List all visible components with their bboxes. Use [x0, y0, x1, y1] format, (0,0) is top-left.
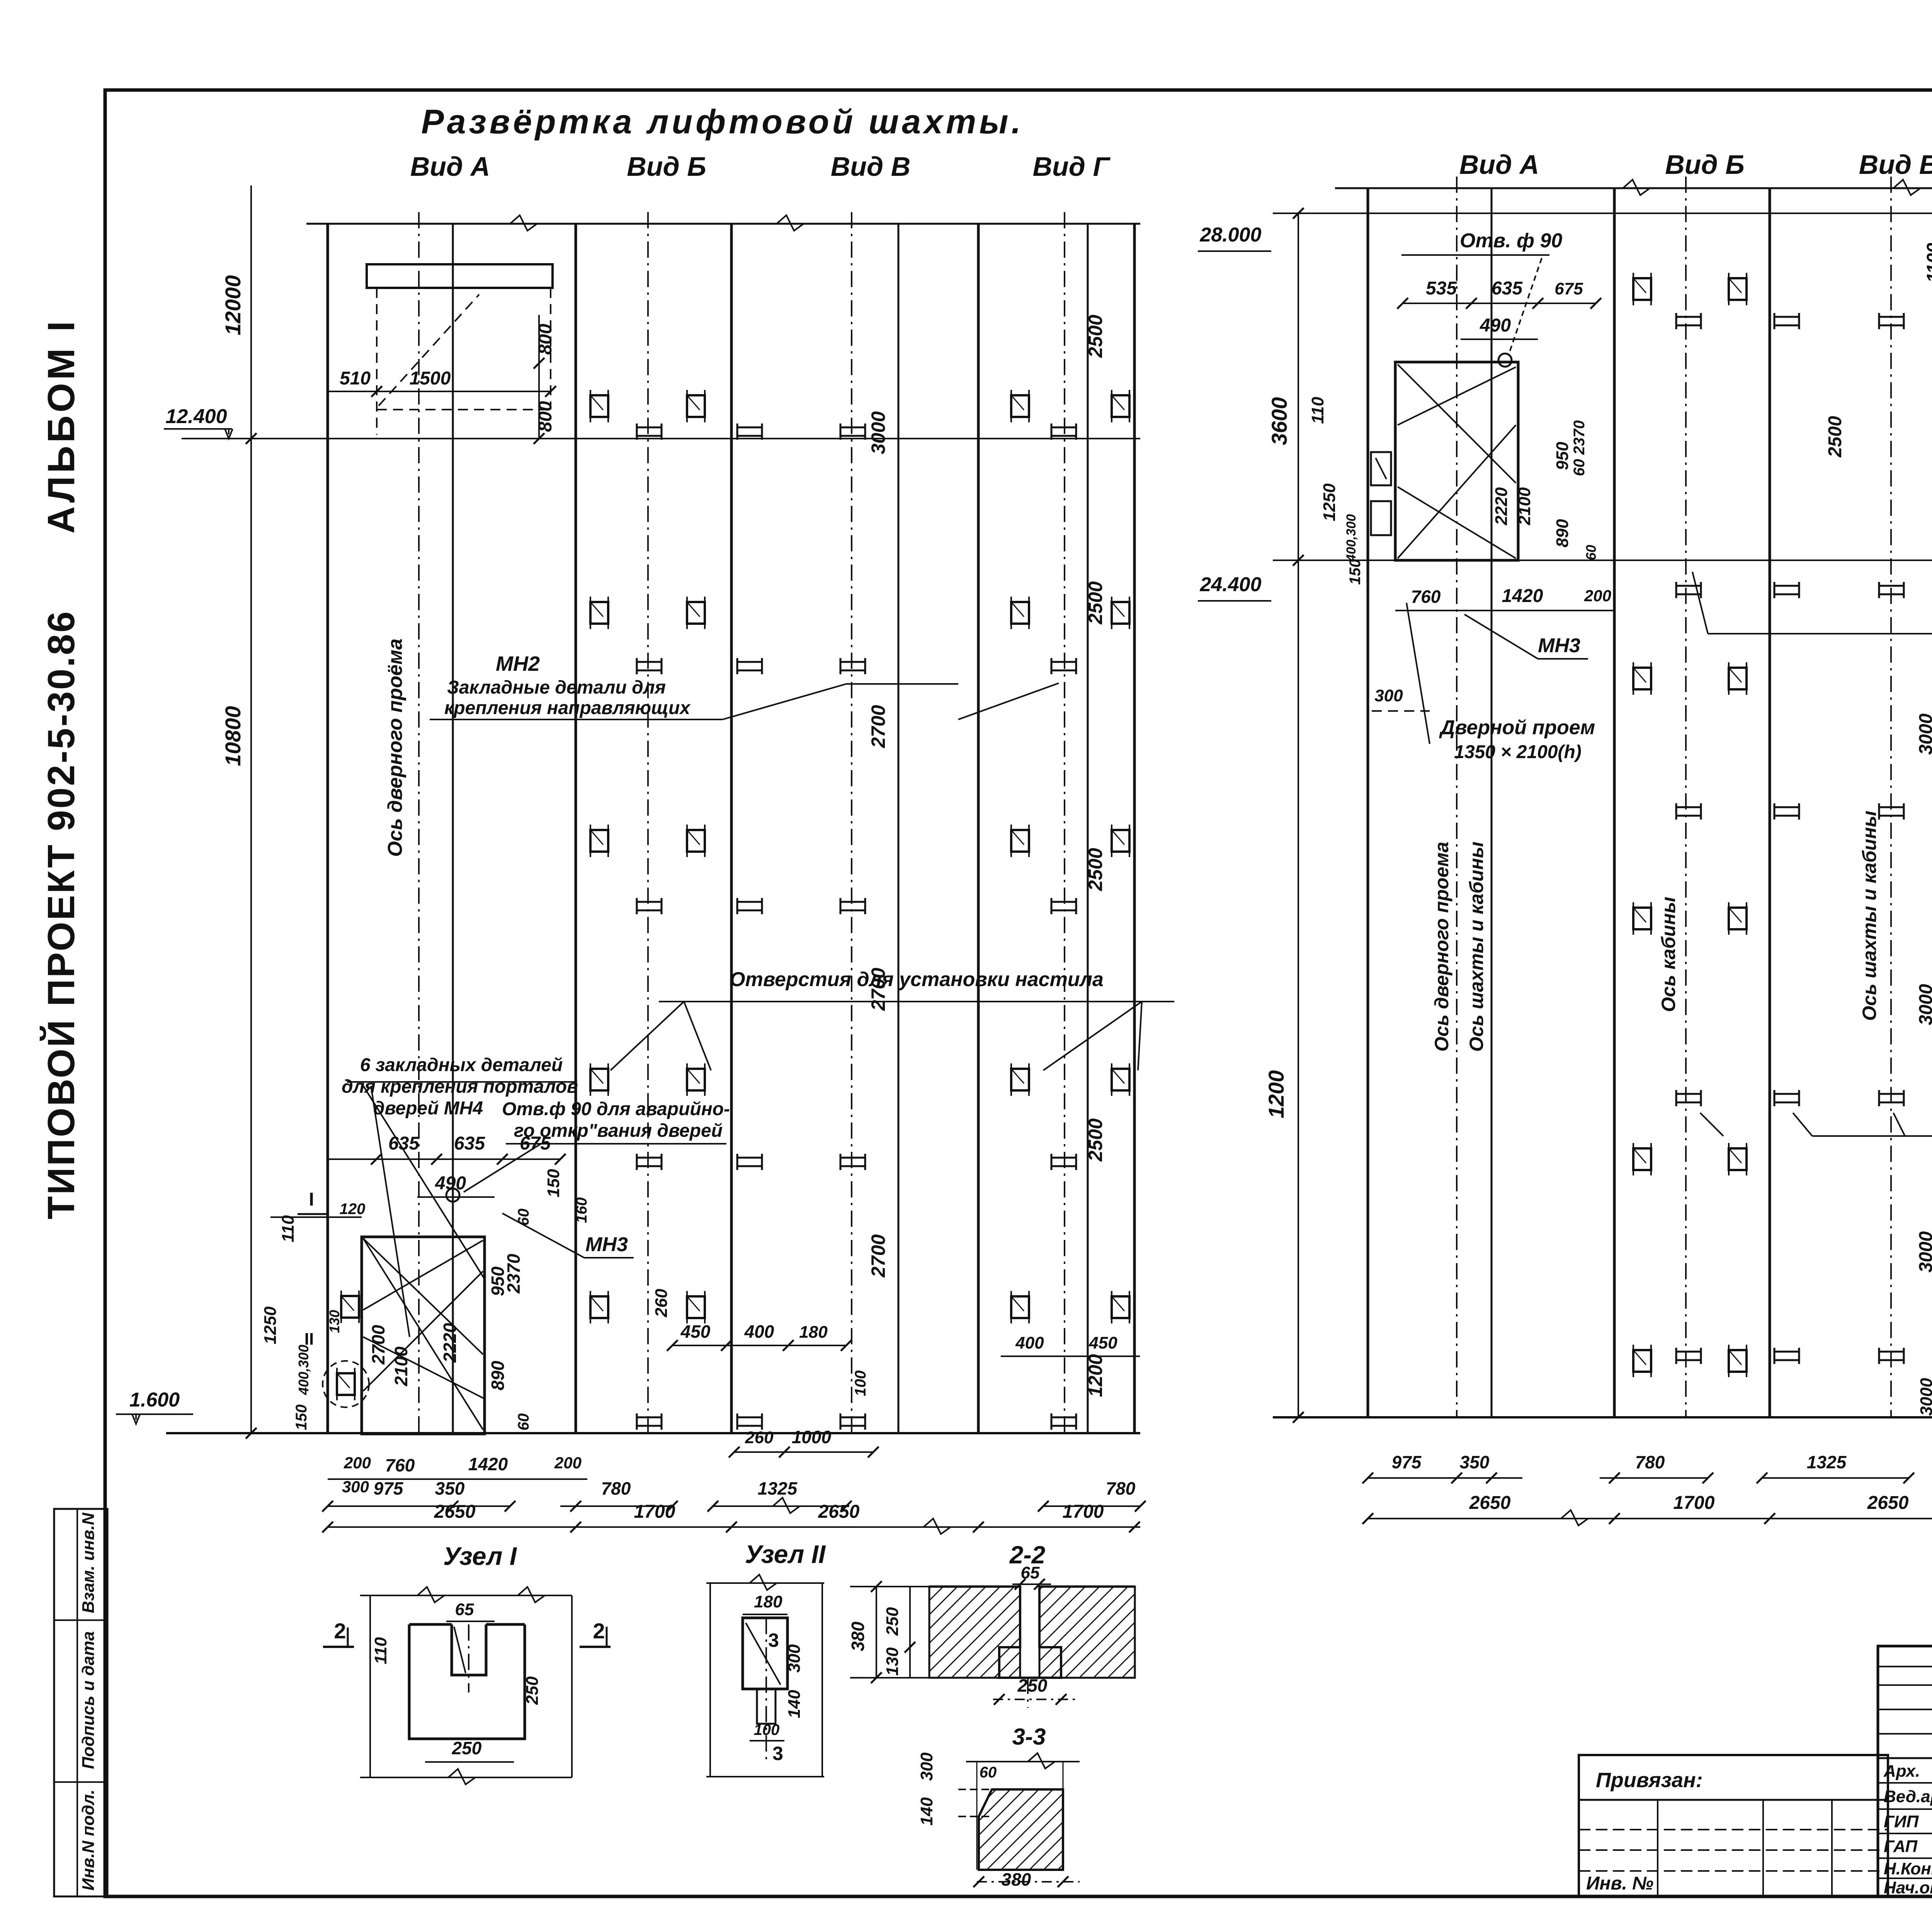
svg-text:3-3: 3-3	[1012, 1724, 1046, 1750]
svg-text:Отверстия для установки насти: Отверстия для установки настила	[730, 968, 1104, 991]
svg-text:1200: 1200	[1085, 1354, 1106, 1397]
svg-text:380: 380	[848, 1621, 868, 1651]
svg-text:3000: 3000	[867, 411, 889, 454]
svg-text:2700: 2700	[867, 1234, 889, 1277]
svg-text:10800: 10800	[221, 706, 245, 766]
svg-text:250: 250	[452, 1738, 482, 1758]
svg-text:Узел II: Узел II	[745, 1540, 826, 1568]
svg-text:Подпись и дата: Подпись и дата	[79, 1631, 98, 1769]
svg-text:Ось кабины: Ось кабины	[1658, 897, 1679, 1012]
svg-text:МН3: МН3	[1538, 634, 1580, 657]
svg-text:1420: 1420	[1502, 586, 1543, 606]
svg-text:3: 3	[772, 1743, 783, 1764]
svg-text:12000: 12000	[221, 275, 245, 335]
svg-text:890: 890	[1553, 519, 1572, 548]
svg-text:АЛЬБОМ I: АЛЬБОМ I	[40, 318, 82, 534]
svg-text:1350 × 2100(h): 1350 × 2100(h)	[1454, 742, 1582, 762]
svg-text:ГАП: ГАП	[1884, 1837, 1918, 1856]
svg-text:Узел I: Узел I	[443, 1542, 517, 1570]
svg-text:400: 400	[744, 1321, 774, 1342]
svg-text:350: 350	[1460, 1452, 1490, 1472]
svg-text:250: 250	[1017, 1675, 1048, 1696]
svg-text:350: 350	[435, 1478, 465, 1498]
svg-text:2500: 2500	[1825, 416, 1845, 457]
svg-text:24.400: 24.400	[1199, 573, 1261, 596]
svg-text:Вид Б: Вид Б	[627, 151, 706, 182]
svg-text:110: 110	[371, 1637, 390, 1664]
svg-text:250: 250	[523, 1676, 542, 1705]
svg-text:1700: 1700	[634, 1502, 675, 1522]
svg-text:Дверной проем: Дверной проем	[1439, 716, 1595, 739]
svg-text:Инв.N подл.: Инв.N подл.	[79, 1789, 98, 1891]
svg-text:1420: 1420	[468, 1454, 508, 1474]
svg-text:28.000: 28.000	[1199, 224, 1261, 246]
svg-text:Ось дверного проема: Ось дверного проема	[1431, 842, 1452, 1051]
svg-text:Нач.отд.: Нач.отд.	[1884, 1878, 1932, 1897]
svg-text:2500: 2500	[1085, 315, 1106, 358]
svg-text:760: 760	[385, 1455, 415, 1475]
svg-text:Ось шахты и кабины: Ось шахты и кабины	[1859, 811, 1880, 1021]
svg-text:Вид Б: Вид Б	[1665, 150, 1745, 180]
svg-text:975: 975	[1392, 1452, 1422, 1472]
svg-text:60: 60	[515, 1209, 532, 1226]
svg-text:130: 130	[327, 1310, 342, 1333]
svg-text:Взам. инв.N: Взам. инв.N	[79, 1512, 98, 1613]
svg-text:Вид А: Вид А	[410, 151, 490, 182]
svg-text:крепления направляющих: крепления направляющих	[444, 698, 691, 718]
svg-text:60: 60	[980, 1764, 997, 1781]
svg-text:490: 490	[435, 1173, 466, 1194]
svg-text:2: 2	[593, 1619, 605, 1643]
svg-text:МН2: МН2	[496, 652, 540, 675]
svg-text:Развёртка лифтовой шахты.: Развёртка лифтовой шахты.	[421, 102, 1024, 141]
svg-text:1250: 1250	[261, 1306, 280, 1344]
svg-text:140: 140	[785, 1690, 804, 1718]
svg-text:400: 400	[1015, 1333, 1044, 1352]
svg-text:Вид В: Вид В	[1859, 150, 1932, 180]
svg-text:Вед.арх.: Вед.арх.	[1884, 1787, 1932, 1806]
svg-text:6 закладных деталей: 6 закладных деталей	[360, 1055, 563, 1075]
svg-text:260: 260	[745, 1428, 774, 1447]
svg-text:2: 2	[334, 1619, 346, 1643]
svg-text:2100: 2100	[391, 1346, 411, 1386]
svg-text:1325: 1325	[758, 1478, 798, 1498]
svg-text:300: 300	[1374, 686, 1403, 705]
svg-text:2220: 2220	[1492, 487, 1511, 526]
svg-text:3600: 3600	[1267, 397, 1291, 446]
svg-text:3: 3	[768, 1629, 779, 1651]
svg-text:1200: 1200	[1264, 1070, 1288, 1119]
svg-text:120: 120	[340, 1201, 366, 1218]
svg-text:60 2370: 60 2370	[1571, 420, 1588, 476]
svg-text:450: 450	[1088, 1333, 1117, 1352]
svg-text:2650: 2650	[434, 1502, 476, 1522]
svg-text:300: 300	[342, 1478, 369, 1496]
svg-text:490: 490	[1480, 315, 1511, 336]
svg-text:150: 150	[544, 1169, 563, 1197]
svg-text:300: 300	[917, 1752, 936, 1781]
svg-text:200: 200	[554, 1454, 582, 1472]
svg-text:2650: 2650	[1867, 1493, 1909, 1513]
svg-text:760: 760	[1411, 587, 1441, 607]
svg-text:2500: 2500	[1085, 1118, 1106, 1162]
svg-text:780: 780	[601, 1478, 631, 1498]
svg-text:2500: 2500	[1085, 848, 1106, 891]
svg-text:150: 150	[1347, 559, 1364, 585]
svg-text:1500: 1500	[410, 368, 451, 389]
svg-text:950: 950	[1553, 442, 1572, 470]
svg-text:Вид В: Вид В	[831, 151, 911, 182]
svg-text:100: 100	[754, 1721, 780, 1738]
svg-text:2100: 2100	[1515, 487, 1534, 526]
svg-text:2650: 2650	[1469, 1493, 1511, 1513]
svg-text:250: 250	[883, 1607, 902, 1636]
svg-text:Привязан:: Привязан:	[1596, 1769, 1703, 1792]
svg-text:800: 800	[535, 401, 556, 432]
svg-text:для крепления порталов: для крепления порталов	[342, 1077, 578, 1097]
svg-text:ТИПОВОЙ ПРОЕКТ 902-5-30.86: ТИПОВОЙ ПРОЕКТ 902-5-30.86	[40, 610, 82, 1219]
svg-text:110: 110	[279, 1215, 298, 1242]
svg-text:1.600: 1.600	[129, 1389, 180, 1411]
svg-text:1100: 1100	[1923, 243, 1932, 283]
svg-text:Ось дверного проёма: Ось дверного проёма	[384, 638, 406, 857]
svg-text:2370: 2370	[503, 1253, 524, 1294]
svg-text:180: 180	[754, 1592, 782, 1611]
svg-text:3000: 3000	[1916, 1231, 1932, 1272]
svg-text:675: 675	[1554, 279, 1583, 298]
svg-text:Инв. №: Инв. №	[1586, 1873, 1653, 1894]
svg-text:510: 510	[340, 368, 371, 389]
svg-text:400,300: 400,300	[296, 1345, 311, 1395]
svg-text:140: 140	[917, 1797, 936, 1826]
svg-text:1700: 1700	[1673, 1493, 1715, 1513]
svg-text:635: 635	[388, 1133, 420, 1154]
svg-text:160: 160	[573, 1197, 590, 1223]
svg-text:2700: 2700	[867, 968, 889, 1011]
svg-text:дверей МН4: дверей МН4	[373, 1098, 483, 1119]
svg-text:180: 180	[799, 1323, 828, 1342]
svg-text:Закладные детали для: Закладные детали для	[447, 677, 666, 698]
svg-text:I: I	[309, 1189, 314, 1210]
svg-text:2700: 2700	[368, 1325, 388, 1365]
svg-text:ГИП: ГИП	[1884, 1812, 1919, 1831]
svg-text:12.400: 12.400	[165, 405, 227, 428]
svg-text:Отв. ф 90: Отв. ф 90	[1460, 230, 1562, 252]
svg-text:Отв.ф 90 для аварийно-: Отв.ф 90 для аварийно-	[502, 1099, 730, 1119]
svg-text:2500: 2500	[1085, 581, 1106, 624]
svg-text:300: 300	[785, 1644, 804, 1673]
svg-text:1000: 1000	[792, 1427, 832, 1447]
svg-text:Н.Контр.: Н.Контр.	[1884, 1859, 1932, 1878]
svg-text:Арх.: Арх.	[1883, 1762, 1920, 1781]
svg-text:2220: 2220	[440, 1323, 460, 1363]
svg-text:3000: 3000	[1916, 984, 1932, 1025]
svg-text:60: 60	[515, 1413, 532, 1431]
svg-text:780: 780	[1635, 1452, 1665, 1472]
svg-text:200: 200	[344, 1454, 371, 1472]
svg-text:890: 890	[488, 1361, 508, 1390]
svg-text:60: 60	[1583, 545, 1599, 560]
svg-text:3000: 3000	[1917, 1378, 1932, 1416]
svg-text:780: 780	[1106, 1478, 1136, 1498]
svg-text:2700: 2700	[867, 705, 889, 748]
svg-text:1700: 1700	[1063, 1502, 1104, 1522]
svg-text:Вид А: Вид А	[1459, 150, 1539, 180]
svg-text:380: 380	[1002, 1869, 1031, 1889]
svg-text:МН3: МН3	[585, 1233, 628, 1256]
svg-text:2650: 2650	[818, 1502, 860, 1522]
svg-text:450: 450	[680, 1321, 711, 1342]
svg-text:800: 800	[535, 324, 556, 355]
svg-text:200: 200	[1584, 587, 1611, 605]
svg-text:100: 100	[852, 1371, 869, 1396]
svg-text:635: 635	[1492, 278, 1523, 299]
svg-text:260: 260	[652, 1289, 671, 1318]
svg-text:975: 975	[374, 1478, 404, 1498]
svg-text:110: 110	[1308, 396, 1327, 424]
svg-text:Вид Г: Вид Г	[1033, 151, 1111, 182]
svg-text:150: 150	[293, 1405, 310, 1430]
svg-text:400,300: 400,300	[1344, 514, 1359, 562]
svg-text:65: 65	[455, 1600, 474, 1619]
svg-text:675: 675	[520, 1133, 551, 1154]
svg-text:635: 635	[454, 1133, 485, 1154]
svg-text:Ось шахты и кабины: Ось шахты и кабины	[1466, 842, 1487, 1052]
svg-text:1250: 1250	[1320, 483, 1339, 521]
svg-text:130: 130	[883, 1647, 902, 1676]
svg-text:3000: 3000	[1916, 713, 1932, 755]
svg-text:1325: 1325	[1807, 1452, 1847, 1472]
svg-text:535: 535	[1426, 278, 1457, 299]
